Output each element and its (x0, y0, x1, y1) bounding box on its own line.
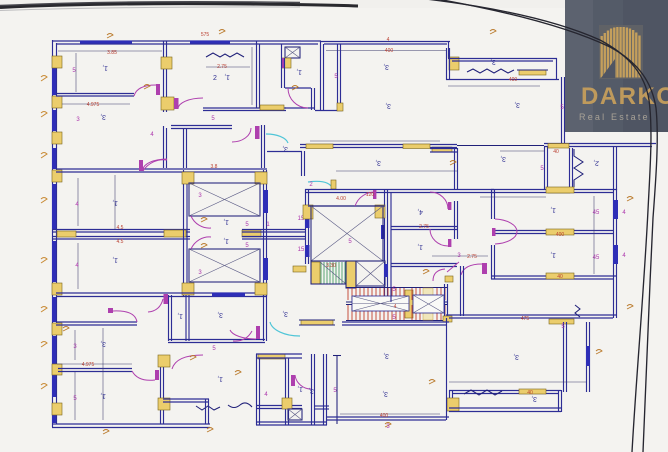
left wall segments (491, 189, 493, 219)
svg-text:3,: 3, (500, 155, 506, 162)
svg-text:2.75: 2.75 (217, 64, 227, 70)
room 1 top-left: right wall (163, 41, 165, 112)
bath door arc (295, 375, 311, 389)
big door arc bottom hall (172, 355, 203, 369)
vertical walls bottom right (563, 322, 565, 392)
svg-text:400: 400 (556, 232, 565, 238)
big sweep curve inner (437, 0, 657, 452)
bath cluster walls (256, 354, 258, 425)
right wall (613, 189, 615, 279)
room walls between y147 and y190 right side (544, 147, 546, 190)
bed zigzag in top room (206, 53, 244, 57)
duct walls x320/x338 (320, 41, 322, 110)
balcony right wall (556, 58, 558, 80)
wall under stair y322 (342, 321, 449, 323)
svg-text:1,: 1, (550, 206, 556, 213)
dim line across bottom-right room (449, 381, 586, 383)
svg-text:3,: 3, (513, 353, 519, 360)
svg-text:45: 45 (593, 210, 600, 216)
elevator box B (189, 249, 260, 282)
room 1 top-left bottom wall (56, 93, 134, 95)
door arc above wall (113, 311, 137, 322)
svg-text:3,: 3, (514, 101, 520, 108)
balcony top wall (448, 58, 557, 60)
svg-text:45: 45 (593, 255, 600, 261)
stair inner rail box A (352, 296, 409, 311)
spring symbol between walls (574, 149, 583, 187)
core columns (303, 205, 313, 219)
svg-text:3,: 3, (100, 113, 106, 120)
svg-text:3,: 3, (490, 58, 496, 65)
svg-text:40: 40 (557, 274, 563, 280)
top outer wall left (52, 40, 321, 42)
upper bath right wall (261, 125, 263, 168)
svg-text:1,: 1, (417, 243, 423, 250)
building icon: gold vertical bars (601, 27, 641, 78)
columns on shaft left wall (182, 172, 194, 184)
svg-text:3.30: 3.30 (326, 263, 336, 269)
left wall columns (52, 56, 62, 68)
svg-text:3.8: 3.8 (211, 164, 218, 170)
dim line bedroom (206, 66, 250, 68)
balcony slab bottom with yellow sill (203, 107, 286, 109)
balcony window zigzag (467, 69, 514, 73)
squiggle in wc room (228, 403, 252, 408)
door arc below shaft (148, 299, 163, 312)
corner sill left of boundary (432, 147, 452, 152)
svg-text:400: 400 (385, 48, 394, 54)
svg-text:1,: 1, (223, 218, 229, 225)
column below duct (282, 58, 291, 68)
corridor stub wall above core (301, 151, 303, 176)
svg-text:2,: 2, (593, 159, 599, 166)
core right wall (384, 189, 386, 302)
dim vertical lines left rooms (77, 178, 79, 226)
top outer wall right (321, 41, 450, 43)
wall between small rooms and block corridor (454, 201, 456, 239)
core inner top line (308, 205, 385, 207)
stair inner rail box B (413, 295, 444, 313)
wall with 5 label vertical (561, 77, 563, 145)
door arc small room a2 (430, 229, 448, 246)
svg-text:3,: 3, (282, 145, 288, 152)
stair borders (346, 287, 448, 289)
corridor wall below shaft x263 (263, 295, 265, 341)
middle divider wall (494, 230, 613, 232)
dim line above long wall (310, 140, 440, 142)
door arc bath top-center (288, 88, 308, 108)
svg-text:1,: 1, (100, 392, 106, 399)
mid-right rooms divider y227 (391, 226, 457, 228)
balcony inner edge (446, 79, 559, 81)
svg-text:575: 575 (201, 32, 210, 38)
svg-text:4: 4 (387, 37, 390, 43)
connecting wall x446 (446, 318, 448, 420)
elevator door arcs (191, 216, 211, 228)
stair landing pale strip (423, 288, 433, 320)
svg-text:40: 40 (527, 390, 533, 396)
core top wall (305, 189, 388, 191)
door into bottom corridor with jamb (461, 264, 482, 275)
machine room X box (311, 206, 383, 261)
door arc into left room (143, 160, 167, 171)
stair right extension hatch (412, 288, 445, 320)
corridor dim line (336, 170, 457, 172)
door arc at wall y170 left (143, 159, 167, 170)
small duct box with X (285, 47, 300, 58)
dim line room1 (75, 53, 77, 92)
bottom outer wall (52, 423, 210, 425)
svg-text:DARKO: DARKO (581, 83, 668, 110)
door arc small room b (entry door at stair landing) (433, 269, 445, 281)
mid-right rooms divider y263 (391, 263, 457, 265)
svg-text:4.975: 4.975 (87, 102, 100, 108)
upper bath block left walls (163, 126, 165, 168)
svg-text:120: 120 (366, 192, 375, 198)
svg-text:3,: 3, (308, 387, 314, 394)
svg-text:15: 15 (298, 247, 305, 253)
door id marks (63, 30, 633, 435)
svg-text:3,: 3, (375, 159, 381, 166)
left wall of right-top room (454, 148, 456, 190)
svg-text:475: 475 (521, 316, 530, 322)
left-middle rooms divider walls at x183-187 (183, 170, 185, 297)
svg-text:2.75: 2.75 (419, 224, 429, 230)
bath cluster: top sill (258, 354, 285, 359)
bottom wall right extension with zigzag (163, 398, 209, 400)
svg-text:Real Estate: Real Estate (579, 112, 650, 122)
dim line under balcony (448, 85, 540, 87)
dark photo edge band top (0, 4, 358, 8)
door arc into core (355, 192, 376, 206)
yellow lintels (546, 187, 574, 193)
svg-text:400: 400 (380, 413, 389, 419)
yellow sill entry (301, 320, 333, 325)
door arc room1 (134, 85, 156, 96)
svg-text:4.00: 4.00 (336, 196, 346, 202)
room3 bl top wall (56, 321, 137, 323)
door arc small room a (430, 192, 448, 209)
stair mid column yellow (346, 261, 356, 288)
stair flight green hatch (321, 262, 345, 284)
big sweep curve outer (426, 0, 651, 452)
svg-text:4,: 4, (417, 208, 423, 215)
big top-center room bottom wall y189 from 388 to 491 (388, 189, 494, 191)
svg-text:2.75: 2.75 (467, 254, 477, 260)
cyan door arc (270, 322, 300, 336)
svg-text:4.5: 4.5 (117, 225, 124, 231)
svg-text:1,: 1, (223, 237, 229, 244)
elevator box A (189, 183, 260, 216)
top wall window fill (80, 41, 132, 44)
long mid wall y145 with sills (300, 144, 457, 146)
door arc left (230, 330, 256, 339)
cell sills (548, 144, 569, 149)
mid horizontal wall pair y230/237 (52, 229, 190, 231)
level markers left margin (41, 76, 47, 390)
right-lower section top wall y315 (446, 314, 616, 316)
top-center room vertical wall x256 (256, 41, 258, 108)
svg-text:400: 400 (509, 77, 518, 83)
balcony top-right: corner wall (448, 41, 450, 58)
corridor wall to lower hall (460, 266, 462, 316)
wall below shaft y293 (56, 292, 267, 294)
svg-text:3,: 3, (382, 390, 388, 397)
svg-text:3,: 3, (217, 311, 223, 318)
svg-text:4.5: 4.5 (117, 239, 124, 245)
stair treads red lower run (348, 305, 404, 320)
zigzag window on y315 wall (575, 305, 580, 317)
upper bath door arc (232, 128, 251, 142)
corridor stub below duct (267, 151, 302, 153)
yellow lintels on mid wall (57, 231, 76, 237)
room1 bl divider wall y369 (58, 368, 132, 370)
svg-text:1,: 1, (224, 73, 230, 80)
svg-text:1,: 1, (112, 256, 118, 263)
small shaft X box right of stair (356, 261, 385, 286)
svg-text:1,: 1, (550, 251, 556, 258)
right boundary wall mid (544, 143, 656, 145)
corner column (449, 57, 459, 70)
magenta jamb (256, 326, 260, 339)
svg-text:3.85: 3.85 (107, 50, 117, 56)
bedroom door arc and jamb (178, 98, 203, 109)
hall dim line (340, 413, 440, 415)
bottom-right block (449, 390, 561, 392)
cyan door at core top (308, 181, 333, 189)
svg-text:3,: 3, (383, 63, 389, 70)
outer left wall (52, 40, 54, 427)
double door arcs at block entry (495, 219, 517, 232)
svg-text:1,: 1, (112, 199, 118, 206)
small X box (288, 409, 302, 420)
left wall window glass fills (52, 68, 56, 95)
svg-text:1,: 1, (177, 312, 183, 319)
svg-text:1,: 1, (102, 64, 108, 71)
shaft column right wall x263-267 (263, 170, 265, 297)
mid wall right stubs (242, 229, 305, 231)
top-center room right wall (446, 48, 448, 80)
svg-text:3,: 3, (100, 340, 106, 347)
svg-text:1,: 1, (217, 375, 223, 382)
mid-right rooms: wall x388 down (390, 193, 392, 302)
cyan door upper bath (266, 134, 288, 143)
right rooms block outer: top wall (491, 189, 616, 191)
svg-text:3,: 3, (383, 352, 389, 359)
wall under top-left rooms y170 (56, 168, 267, 170)
bath top-center walls (281, 44, 283, 88)
bottom wall (491, 275, 616, 277)
column at top wall x163 (161, 57, 172, 69)
dim vertical in block (593, 196, 595, 274)
DARKO logo block (565, 0, 668, 132)
svg-text:3,: 3, (385, 102, 391, 109)
svg-text:40: 40 (553, 149, 559, 155)
right boundary continuation (613, 279, 615, 318)
core left wall (305, 189, 307, 264)
door arc bl (132, 371, 155, 380)
dim line corridor (432, 255, 488, 257)
long bottom wall of hall y417 (327, 416, 449, 418)
svg-text:1,: 1, (296, 68, 302, 75)
stair right wall (444, 284, 446, 322)
dims (74, 330, 76, 360)
small bath bottom-center-left (168, 295, 170, 341)
corridor wall x335 (336, 355, 338, 424)
corridor door bottom-left of core (233, 331, 252, 341)
svg-text:1,: 1, (297, 385, 303, 392)
room number labels navy (0, 0, 1, 1)
svg-text:2: 2 (213, 75, 217, 82)
stair treads red upper run (348, 288, 404, 300)
yellow column in cluster (282, 398, 292, 409)
svg-text:4: 4 (394, 304, 397, 310)
svg-text:4.975: 4.975 (82, 362, 95, 368)
upper bath top wall (171, 125, 232, 127)
svg-text:3,: 3, (282, 310, 288, 317)
bl right wall x160 (160, 367, 162, 424)
balcony window sill (519, 70, 546, 75)
dim line horizontal room3 below (62, 103, 130, 105)
